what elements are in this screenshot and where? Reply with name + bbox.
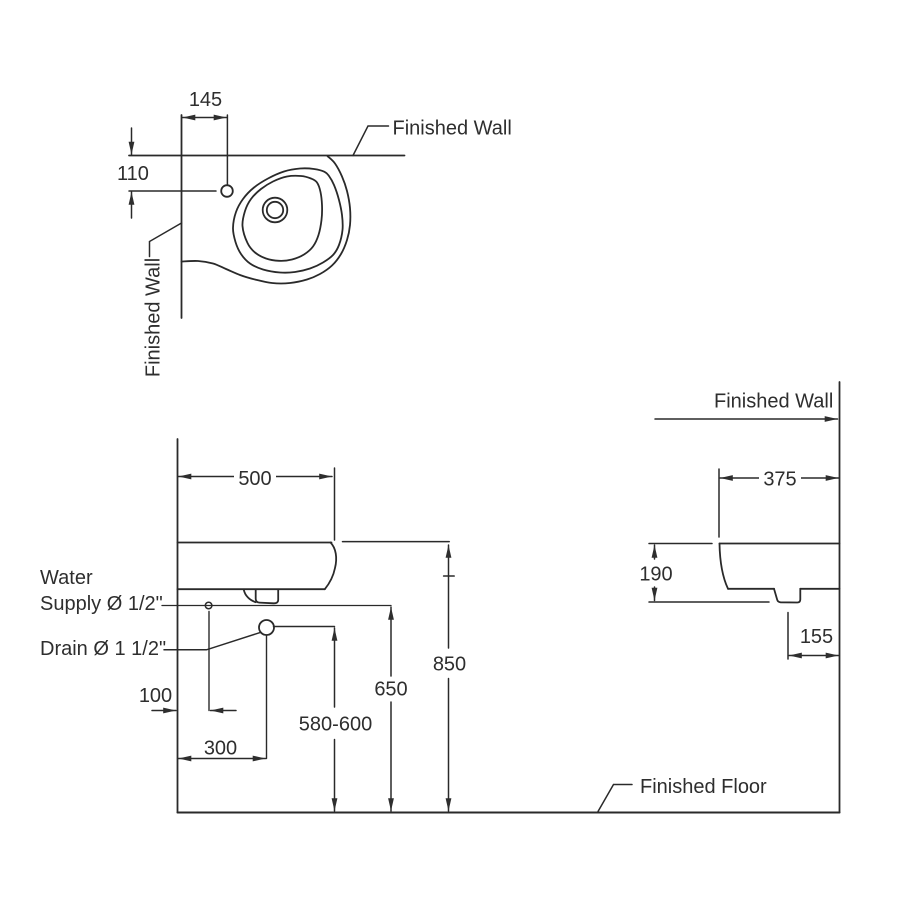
svg-text:650: 650 xyxy=(374,679,407,701)
drain outlet cup (front) xyxy=(256,590,279,604)
dimension 190: lower arrow pointing down xyxy=(654,587,656,601)
dimension 850: lower line with down arrow xyxy=(448,679,450,812)
svg-text:155: 155 xyxy=(800,626,833,648)
svg-text:Supply Ø 1/2": Supply Ø 1/2" xyxy=(40,593,163,615)
dimension 850: horizontal reference line at rim level xyxy=(343,541,450,543)
dimension 190: bottom extension line xyxy=(649,601,769,603)
dimension 155: extension line below drain outlet xyxy=(787,613,789,660)
leader to Finished Floor label xyxy=(598,785,632,812)
leader to top Finished Wall label xyxy=(353,126,389,156)
drain drop line xyxy=(266,636,268,759)
wall: left vertical finished-wall line (front) xyxy=(177,439,179,813)
wall: left vertical finished-wall line (plan) xyxy=(181,115,183,318)
water supply reference line xyxy=(162,605,391,607)
floor: finished floor line xyxy=(178,812,840,814)
drain trap arc (front) xyxy=(244,590,256,602)
dimension 375: left extension line xyxy=(718,469,720,537)
drain hole circle (front) xyxy=(259,620,274,635)
faucet hole (plan) xyxy=(221,185,233,197)
basin top edge (front) xyxy=(178,542,332,544)
drain outer circle (plan) xyxy=(263,198,288,223)
basin bottom edge (side) xyxy=(728,588,774,590)
svg-text:Drain Ø 1 1/2": Drain Ø 1 1/2" xyxy=(40,638,166,660)
drain reference line to 580-600 xyxy=(274,626,335,628)
svg-text:850: 850 xyxy=(433,654,466,676)
dimension 500: right extension line xyxy=(334,468,336,540)
dimension 145: dimension line with outward arrows xyxy=(183,117,227,119)
dimension 155: dimension line with outward arrows xyxy=(789,655,839,657)
svg-text:145: 145 xyxy=(189,89,222,111)
basin right edge curve (front) xyxy=(325,543,336,590)
svg-text:Finished Floor: Finished Floor xyxy=(640,776,767,798)
water supply hole (front) xyxy=(205,602,212,609)
dimension 500: dimension line with outward arrows xyxy=(179,476,333,478)
svg-text:500: 500 xyxy=(238,468,271,490)
dimension 110: lower extension line xyxy=(129,190,216,192)
svg-text:580-600: 580-600 xyxy=(299,714,372,736)
basin outer rim outline (plan) xyxy=(182,156,351,283)
drain outlet (side) xyxy=(774,589,800,603)
dimension 375: dimension line with outward arrows xyxy=(720,477,839,479)
leader to left Finished Wall label xyxy=(150,223,182,257)
dimension 110: upper arrow pointing down xyxy=(131,128,133,155)
dimension 190: top extension line xyxy=(649,543,712,545)
basin top edge (side) xyxy=(720,543,840,545)
svg-text:375: 375 xyxy=(763,469,796,491)
dimension 580-600: upper line with up arrow xyxy=(334,628,336,707)
dimension 850: jog tick xyxy=(444,575,455,577)
dimension 650: lower line with down arrow xyxy=(390,702,392,811)
svg-text:Finished Wall: Finished Wall xyxy=(143,258,165,377)
dimension 500: value label xyxy=(234,464,276,489)
dimension 145: extension line down to faucet hole xyxy=(226,115,228,184)
dimension 190: upper arrow pointing up xyxy=(654,545,656,559)
wall: right vertical finished-wall line (side) xyxy=(839,382,841,813)
wall: top horizontal finished-wall line (plan) xyxy=(129,155,405,157)
water supply drop line xyxy=(208,612,210,711)
basin inner bowl contour (plan) xyxy=(242,176,322,261)
dimension 650: upper line with up arrow xyxy=(390,607,392,676)
dimension 375: value label xyxy=(759,466,801,490)
svg-text:110: 110 xyxy=(117,163,149,185)
svg-text:Finished Wall: Finished Wall xyxy=(393,118,512,140)
svg-text:Finished Wall: Finished Wall xyxy=(714,391,833,413)
svg-text:300: 300 xyxy=(204,738,237,760)
basin bottom edge (front) xyxy=(178,588,325,590)
dimension 300: dimension line with outward arrows xyxy=(179,758,266,760)
svg-text:100: 100 xyxy=(139,685,172,707)
drain inner circle (plan) xyxy=(267,202,283,218)
svg-text:Water: Water xyxy=(40,567,93,589)
drain leader diagonal xyxy=(164,632,261,650)
dimension 580-600: lower line with down arrow xyxy=(334,740,336,812)
basin middle rim contour (plan) xyxy=(233,168,343,272)
dimension 100: right arrow pointing left xyxy=(211,710,237,712)
dimension 100: left arrow pointing right xyxy=(152,710,176,712)
svg-text:190: 190 xyxy=(639,564,672,586)
leader arrow to side wall xyxy=(655,418,838,420)
dimension 850: upper line with up arrow xyxy=(448,545,450,648)
basin front edge curve (side) xyxy=(720,544,729,589)
dimension 110: lower arrow pointing up xyxy=(131,192,133,218)
